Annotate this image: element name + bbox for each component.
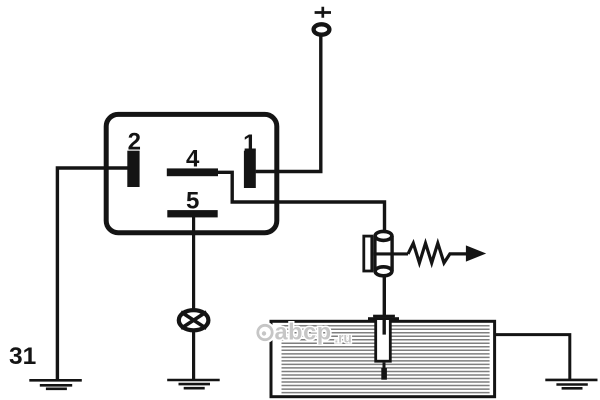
pump Y bracket bbox=[364, 236, 372, 271]
tank liquid hatching bbox=[282, 326, 490, 393]
wire tank to right ground bbox=[495, 335, 570, 379]
pump bottom ellipse bbox=[375, 267, 392, 276]
ground at 31 bbox=[29, 380, 82, 389]
terminal bar 5 bbox=[167, 210, 217, 217]
pump body side walls bbox=[375, 236, 392, 271]
wire pump to probe bbox=[383, 276, 386, 317]
pump top ellipse bbox=[375, 231, 392, 240]
svg-text:abcp: abcp bbox=[275, 318, 332, 344]
wire lamp to center ground bbox=[192, 332, 195, 380]
watermark logo circle bbox=[258, 325, 272, 339]
wire terminal 1 to battery + bbox=[256, 37, 321, 172]
ground right bbox=[545, 380, 597, 388]
pump mid line and zigzag spring lead bbox=[373, 252, 408, 255]
probe tip thin wire bbox=[383, 363, 386, 369]
wire terminal 4 to pump (stepped) bbox=[218, 172, 385, 232]
svg-text:2: 2 bbox=[128, 129, 141, 156]
svg-text:.ru: .ru bbox=[335, 330, 352, 345]
plus sign bbox=[315, 7, 331, 18]
lamp X cross bbox=[181, 312, 207, 329]
zigzag spring bbox=[408, 243, 467, 263]
svg-text:4: 4 bbox=[186, 145, 200, 172]
probe tip electrode bbox=[381, 368, 387, 380]
fuel tank bbox=[271, 321, 495, 396]
svg-text:1: 1 bbox=[243, 130, 256, 157]
terminal bar 1 bbox=[244, 151, 256, 188]
wire terminal 2 to node 31 (left drop) bbox=[57, 168, 128, 380]
svg-text:31: 31 bbox=[9, 343, 36, 370]
lamp body bbox=[179, 310, 209, 330]
battery + terminal circle bbox=[314, 24, 330, 34]
terminal bar 4 bbox=[167, 168, 218, 176]
ground below lamp bbox=[167, 380, 220, 388]
probe flange lower bbox=[368, 317, 399, 320]
probe inner wire bbox=[383, 319, 386, 335]
probe body bbox=[376, 319, 391, 362]
relay K1 box bbox=[106, 114, 277, 232]
svg-text:5: 5 bbox=[186, 187, 199, 214]
terminal bar 2 bbox=[127, 151, 139, 187]
wire relay 5 to lamp bbox=[192, 217, 195, 309]
probe flange upper bbox=[373, 315, 395, 318]
arrow head bbox=[466, 245, 486, 261]
